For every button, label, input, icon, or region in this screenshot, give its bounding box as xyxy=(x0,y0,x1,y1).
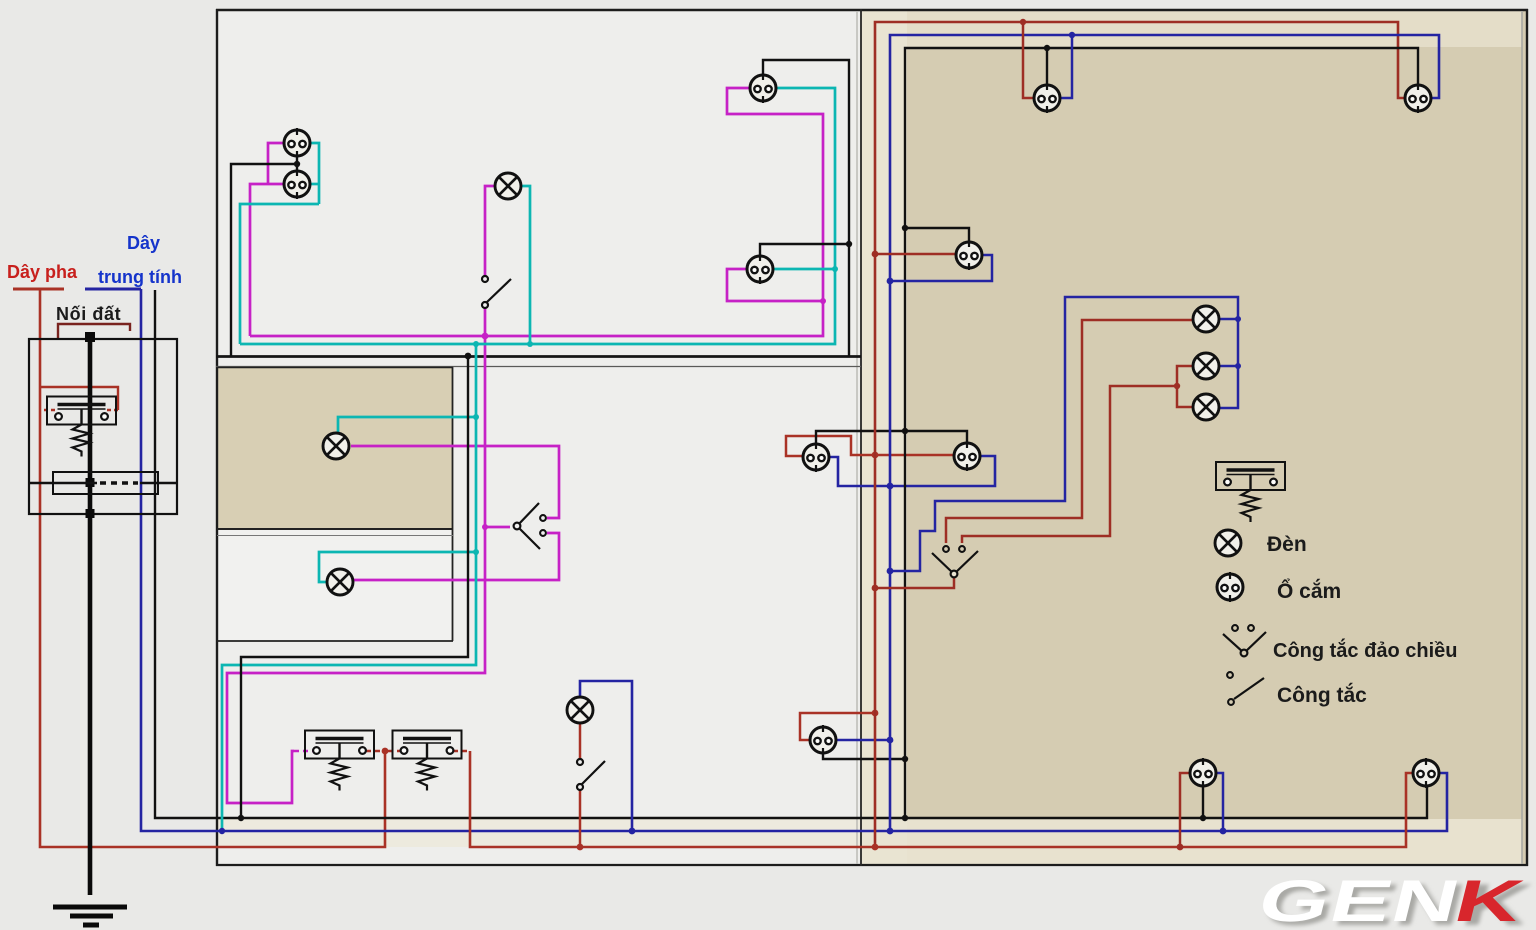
wall: outer right shadow xyxy=(1521,11,1523,864)
switch S4 contact top xyxy=(577,759,583,765)
wire: black drop to socket O9 xyxy=(1046,48,1048,85)
terminal block box xyxy=(53,472,158,494)
wire: neutral label bar xyxy=(85,288,141,291)
node blue trunk O5 xyxy=(887,737,894,744)
wire: noi dat link bar xyxy=(58,324,130,339)
wall: top-room bottom inner thin xyxy=(216,366,861,368)
wire: red two-way S5 contact A to lamp R1 xyxy=(946,320,1193,543)
terminal block bus solid right xyxy=(140,482,177,485)
wire: cyan socket O1 right lead xyxy=(311,143,319,204)
legend socket symbol xyxy=(1217,572,1243,602)
wire: cyan lamp L1 drop xyxy=(521,186,530,344)
node cyan T L3 xyxy=(473,549,479,555)
wire: phase feeder down left side xyxy=(40,289,385,847)
inner white room fill xyxy=(218,530,452,640)
node red main S4 xyxy=(577,844,584,851)
node black T wall xyxy=(465,353,472,360)
wire: cyan left drop to main xyxy=(240,204,319,344)
GENK logo shadow xyxy=(1257,873,1536,930)
wall: outer right xyxy=(1526,9,1528,866)
legend switch pivot xyxy=(1228,699,1234,705)
two-way switch S5 lever lines xyxy=(932,551,978,574)
wire: magenta socket O4 loop xyxy=(727,269,823,301)
lamp L2 xyxy=(323,433,349,459)
wire: cyan socket O4 right lead xyxy=(773,268,835,271)
wire: blue staircase to lamp group xyxy=(890,297,1238,571)
lamp L1 xyxy=(495,173,521,199)
terminal block bus solid left xyxy=(29,482,97,485)
node red riser junction xyxy=(382,748,389,755)
wall: middle shared xyxy=(860,9,862,866)
socket O10 bottom xyxy=(1190,758,1216,788)
node black T main xyxy=(238,815,244,821)
wire: magenta S3 bottom contact to lamp L3 xyxy=(354,533,559,580)
node magenta cross xyxy=(482,333,489,340)
wall: tan/white room divider xyxy=(217,528,453,530)
node magenta T right xyxy=(820,298,826,304)
lamp R2 xyxy=(1193,353,1219,379)
wall: outer left xyxy=(216,9,218,866)
two-way switch S3 contact A xyxy=(540,515,546,521)
node black T O4 xyxy=(846,241,852,247)
node red trunk O5 xyxy=(872,710,879,717)
wire: red two-way S5 common to trunk xyxy=(875,578,954,588)
node red trunk S5 xyxy=(872,585,879,592)
svg-text:Công tắc: Công tắc xyxy=(1277,683,1367,707)
wire: red dash CB2 right terminal out xyxy=(453,750,470,753)
wire: red two-way S5 contact B riser xyxy=(962,386,1177,543)
wire: magenta dash to CB1 left terminal xyxy=(294,750,313,753)
wall: middle shared (gray shadow) xyxy=(856,11,858,864)
two-way switch S3 lever lines xyxy=(517,503,540,549)
wire: black socket O5 ground to trunk xyxy=(823,753,905,759)
legend two-way switch contact A xyxy=(1232,625,1238,631)
switch S1 contact top xyxy=(482,276,488,282)
svg-text:trung tính: trung tính xyxy=(98,267,182,287)
node cyan T lamp xyxy=(527,341,533,347)
node blue trunk bottom xyxy=(887,828,894,835)
wire: black socket O4 ground link xyxy=(760,244,849,255)
switch S4 contact bottom xyxy=(577,784,583,790)
wire: black bottom socket O10 ground xyxy=(1202,786,1204,818)
lamp R3 xyxy=(1193,394,1219,420)
svg-text:Nối đất: Nối đất xyxy=(56,304,121,324)
wire: blue stub lamp R1 xyxy=(1219,318,1238,321)
two-way switch S3 common xyxy=(514,523,521,530)
node blue top main O9 xyxy=(1069,32,1075,38)
node cyan T xyxy=(832,266,838,272)
GENK logo GEN xyxy=(1252,869,1468,930)
svg-text:Dây: Dây xyxy=(127,233,160,253)
wire: blue socket O5 to trunk xyxy=(836,739,890,742)
socket O11 top right xyxy=(1405,83,1431,113)
socket O5 xyxy=(810,725,836,755)
switch S1 lever xyxy=(487,279,511,302)
switch S1 contact bottom xyxy=(482,302,488,308)
terminal block bus dashes xyxy=(100,481,138,484)
node blue R2 xyxy=(1235,363,1241,369)
wall: white room bottom xyxy=(217,640,453,642)
legend two-way switch common xyxy=(1241,650,1248,657)
wire: magenta socket O1 left lead xyxy=(268,143,284,184)
wire: blue drop to socket O9 xyxy=(1060,35,1072,98)
wire: ground feeder down and bottom main xyxy=(155,290,1427,818)
switch S4 lever xyxy=(582,761,605,784)
wire: cyan branch tan-room lamp L2 xyxy=(338,417,476,432)
earth electrode symbol xyxy=(53,907,127,925)
right room wiring corridor left strip xyxy=(861,10,907,865)
node red trunk bottom xyxy=(872,844,879,851)
node blue neutral-cyan junction xyxy=(219,828,225,834)
wire: magenta branch to two-way switch S3 common xyxy=(485,526,510,529)
node red top main O9 xyxy=(1020,19,1026,25)
right room floor (tan) xyxy=(861,10,1527,865)
node blue main L4 xyxy=(629,828,636,835)
node black main O10 xyxy=(1200,815,1206,821)
main breaker CB0 in panel xyxy=(47,397,116,457)
wire: red dash riser to CB2 left terminal xyxy=(388,750,401,753)
lamp R1 xyxy=(1193,306,1219,332)
wire: red drop to socket O9 xyxy=(1023,22,1034,98)
left room mains corridor tint xyxy=(218,819,861,847)
svg-text:Công tắc đảo chiều: Công tắc đảo chiều xyxy=(1273,638,1457,662)
svg-text:GEN: GEN xyxy=(1252,869,1468,930)
wire: cyan descending riser to neutral main xyxy=(222,344,476,831)
node blue trunk staircase xyxy=(887,568,894,575)
node blue R1 xyxy=(1235,316,1241,322)
wire: magenta switch S1 to main xyxy=(484,308,487,336)
two-way switch S3 contact B xyxy=(540,530,546,536)
breaker CB2 room xyxy=(393,731,462,791)
wire: red drop bottom socket O10 xyxy=(1180,773,1190,847)
wall: divider thin second line xyxy=(217,535,453,537)
right room corridor bottom strip xyxy=(907,819,1522,865)
node black trunk O8 xyxy=(902,225,908,231)
wire: red socket O5 wrap to trunk xyxy=(800,713,875,740)
node red trunk O6 xyxy=(872,452,879,459)
socket O7 xyxy=(954,441,980,471)
node black top main O9 xyxy=(1044,45,1050,51)
socket O3 xyxy=(750,73,776,103)
svg-text:Dây pha: Dây pha xyxy=(7,262,78,282)
GENK logo K xyxy=(1448,869,1531,930)
wire: blue wrap socket O8 xyxy=(890,255,992,281)
ground conductor (thick) xyxy=(88,337,93,895)
wire: red dash CB1 right terminal to riser xyxy=(366,750,383,753)
socket O2 xyxy=(284,169,310,199)
svg-text:Đèn: Đèn xyxy=(1267,533,1307,556)
wire: blue stub lamp R2 xyxy=(1219,365,1238,368)
wire: magenta lamp L1 to switch S1 xyxy=(485,186,495,276)
node cyan T L2 xyxy=(473,414,479,420)
two-way switch S5 contact B xyxy=(959,546,965,552)
legend switch lever xyxy=(1234,678,1264,699)
node red trunk O8 xyxy=(872,251,879,258)
node cyan T main xyxy=(473,341,479,347)
wire: magenta socket O2 left lead down xyxy=(250,184,283,336)
ground node top xyxy=(85,332,95,342)
wire: red trunk riser right room xyxy=(875,22,1405,847)
wire: phase dash from breaker left terminal xyxy=(44,409,57,411)
wall: inner rooms right xyxy=(452,367,454,641)
ground node at terminal block xyxy=(86,478,95,487)
wire: phase branch into panel breaker xyxy=(40,387,118,410)
wire: magenta S3 top contact to tan-room lamp L2 xyxy=(351,446,559,518)
wire: red switch S4 to phase main xyxy=(579,790,582,847)
wire: blue drop bottom socket O10 xyxy=(1216,773,1223,831)
wire: black trunk riser right room xyxy=(905,48,1418,818)
socket O9 xyxy=(1034,83,1060,113)
breaker CB1 room xyxy=(305,731,374,791)
node red main O10 xyxy=(1177,844,1184,851)
node blue trunk O8 xyxy=(887,278,894,285)
wall: outer bottom xyxy=(216,864,1528,866)
wire: blue lamp L4 to neutral main xyxy=(580,681,632,831)
legend two-way switch lever lines xyxy=(1223,632,1266,653)
wire: red branch socket O8 xyxy=(875,253,956,256)
right room corridor top strip xyxy=(907,10,1522,47)
wire: black socket O3 ground drop xyxy=(763,60,849,356)
two-way switch S5 common xyxy=(951,571,958,578)
wire: black ground link O6 O7 xyxy=(816,431,967,443)
wall: inner rooms top xyxy=(217,367,453,369)
node black junction O1O2 xyxy=(294,161,300,167)
inner tan room (kitchen) xyxy=(217,367,453,529)
wire: black descending riser to ground main xyxy=(241,356,468,818)
wire: cyan branch lamp L3 xyxy=(319,552,476,582)
socket O12 bottom right xyxy=(1413,758,1439,788)
legend lamp symbol xyxy=(1215,530,1241,556)
two-way switch S5 contact A xyxy=(943,546,949,552)
lamp L3 xyxy=(327,569,353,595)
left room floor xyxy=(217,10,861,866)
wall: outer top xyxy=(216,9,1528,11)
wire: neutral feeder down and bottom main xyxy=(141,289,1447,831)
wire: red branch lamp R2 xyxy=(1177,366,1193,386)
wire: cyan socket O2 right lead xyxy=(311,183,319,186)
wire: red phase main right segment xyxy=(470,751,1413,847)
socket O8 xyxy=(956,240,982,270)
socket O4 xyxy=(747,254,773,284)
legend two-way switch contact B xyxy=(1248,625,1254,631)
legend breaker symbol xyxy=(1216,462,1285,522)
node black trunk O6 xyxy=(902,428,908,434)
svg-text:Ổ cắm: Ổ cắm xyxy=(1277,579,1341,603)
node blue trunk O6 xyxy=(887,483,894,490)
wire: black link socket O8 xyxy=(905,228,969,242)
wire: red lamp L4 drop to switch S4 xyxy=(579,723,582,759)
wall: top-room bottom xyxy=(216,355,861,358)
distribution panel box xyxy=(29,339,177,514)
wire: blue trunk riser right room xyxy=(890,35,1439,831)
ground node at panel bottom xyxy=(86,509,95,518)
socket O1 xyxy=(284,128,310,158)
node black trunk O5 xyxy=(902,756,908,762)
node blue main O10 xyxy=(1220,828,1227,835)
wire: cyan main loop top room xyxy=(240,88,835,344)
wire: black link between O1 and O2 xyxy=(296,156,298,171)
wire: magenta main loop top room xyxy=(250,88,823,336)
legend switch contact xyxy=(1227,672,1233,678)
wire: phase dash to breaker right terminal xyxy=(107,409,118,411)
socket O6 xyxy=(803,442,829,472)
wire: magenta descending riser to breaker CB1 xyxy=(227,336,485,803)
wire: black ground lead left of sockets xyxy=(231,164,297,356)
node black trunk bottom xyxy=(902,815,908,821)
node red T lamps xyxy=(1174,383,1180,389)
wire: red branch lamp R3 xyxy=(1177,386,1193,407)
wire: phase label bar xyxy=(13,288,64,291)
lamp L4 xyxy=(567,697,593,723)
node magenta T at S3 xyxy=(482,524,488,530)
wire: red sockets O6 O7 link over trunk xyxy=(786,436,953,456)
wire: blue socket O6 wrap to O7 xyxy=(829,456,995,486)
